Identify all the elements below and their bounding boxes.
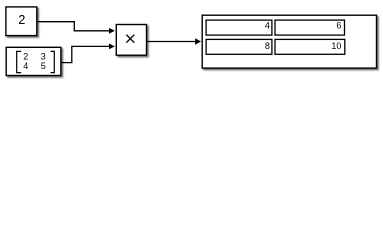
svg-text:2: 2 [18,13,25,27]
wire U1 output to D1 [147,41,195,43]
display field value 10 [275,39,345,54]
constant block C2 value [2 3; 4 5] [6,47,61,75]
svg-text:8: 8 [265,41,270,51]
product block U1 [116,25,146,56]
svg-text:3: 3 [41,51,46,61]
svg-text:5: 5 [41,61,46,71]
wire C2 to U1 port 2 [62,46,110,62]
svg-text:2: 2 [23,51,28,61]
display field value 4 [206,20,272,35]
constant block C1 value "2" [6,7,37,36]
svg-text:10: 10 [331,41,341,51]
wire C1 to U1 port 1 [38,22,110,31]
display field value 6 [275,20,345,35]
arrowhead at U1 port 1 [109,28,115,34]
display block D1 [202,15,376,68]
svg-text:6: 6 [336,21,341,31]
arrowhead at D1 input [195,38,201,44]
svg-text:4: 4 [23,61,28,71]
svg-text:4: 4 [265,21,270,31]
arrowhead at U1 port 2 [109,44,115,50]
display field value 8 [206,39,272,54]
